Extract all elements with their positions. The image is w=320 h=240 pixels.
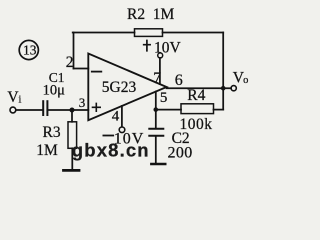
svg-text:R3: R3 [43, 124, 61, 141]
wire Vi to C1 [16, 109, 42, 111]
wire C2 to ground [155, 137, 157, 163]
resistor R2 [135, 29, 163, 37]
figure number 13 [19, 40, 38, 59]
wire junction to R3 [71, 110, 73, 122]
wire to R4 [156, 109, 181, 111]
svg-text:gbx8.cn: gbx8.cn [72, 140, 150, 161]
svg-text:o: o [243, 75, 248, 86]
svg-text:13: 13 [23, 43, 37, 58]
power +10V terminal [144, 39, 182, 58]
svg-text:200: 200 [168, 145, 193, 162]
pin 2 stub wire [74, 68, 89, 70]
wire pin 7 [159, 58, 161, 84]
svg-text:6: 6 [175, 72, 183, 89]
ground (C2) [151, 163, 165, 166]
svg-text:7: 7 [153, 70, 161, 87]
svg-text:5: 5 [160, 90, 168, 106]
wire top horizontal right of R2 [163, 32, 224, 34]
svg-text:i: i [19, 95, 22, 106]
svg-text:3: 3 [79, 95, 86, 110]
svg-text:2: 2 [66, 54, 74, 71]
op-amp U1 5G23 [88, 54, 166, 121]
capacitor C2 [149, 129, 163, 136]
svg-text:R2: R2 [127, 6, 145, 23]
wire pin 5 vertical [155, 92, 157, 110]
wire R4 to right vertical [214, 109, 224, 111]
capacitor C1 [43, 101, 47, 115]
wire output [167, 87, 232, 89]
svg-text:1M: 1M [153, 6, 175, 23]
resistor R3 [68, 122, 77, 149]
wire top horizontal left of R2 [73, 32, 135, 34]
wire right vertical (feedback to output node and R4) [222, 33, 224, 110]
power -10V terminal [103, 127, 144, 147]
wire feedback left vertical [73, 33, 75, 69]
wire R3 to ground [71, 148, 73, 169]
svg-text:R4: R4 [187, 87, 205, 104]
wire node to C2 [155, 110, 157, 128]
wire C1 to pin 3 [49, 109, 89, 111]
ground (R3) [64, 169, 80, 172]
node junction at R3 top [70, 108, 75, 113]
svg-text:5G23: 5G23 [102, 79, 137, 96]
svg-text:10μ: 10μ [43, 83, 66, 99]
input terminal Vi [7, 89, 21, 113]
svg-text:4: 4 [112, 109, 120, 125]
resistor R4 [181, 104, 214, 114]
wire pin 4 [121, 106, 123, 127]
output terminal Vo [231, 69, 248, 90]
node junction pin5/R4/C2 [154, 107, 158, 111]
svg-text:1M: 1M [36, 142, 58, 159]
node junction at output [221, 86, 225, 90]
